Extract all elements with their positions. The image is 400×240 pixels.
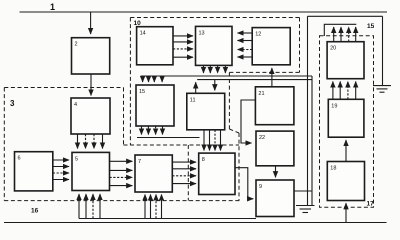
svg-text:3: 3	[10, 99, 15, 108]
svg-text:17: 17	[367, 201, 375, 208]
svg-text:6: 6	[18, 156, 21, 162]
svg-text:4: 4	[74, 102, 77, 108]
svg-text:2: 2	[75, 42, 78, 48]
svg-text:8: 8	[202, 157, 205, 163]
svg-text:15: 15	[367, 23, 375, 30]
svg-text:14: 14	[140, 31, 146, 37]
svg-text:5: 5	[75, 156, 78, 162]
svg-text:7: 7	[138, 159, 141, 165]
svg-text:15: 15	[139, 89, 145, 95]
svg-text:16: 16	[31, 208, 39, 215]
svg-text:21: 21	[258, 91, 264, 97]
svg-text:1: 1	[50, 2, 55, 12]
svg-text:20: 20	[330, 46, 336, 52]
svg-text:19: 19	[331, 103, 337, 109]
svg-text:12: 12	[255, 32, 261, 38]
svg-text:10: 10	[134, 20, 142, 27]
svg-text:11: 11	[190, 97, 196, 103]
svg-text:9: 9	[259, 184, 262, 190]
svg-text:13: 13	[199, 30, 205, 36]
svg-text:18: 18	[330, 166, 336, 172]
svg-text:22: 22	[259, 135, 265, 141]
